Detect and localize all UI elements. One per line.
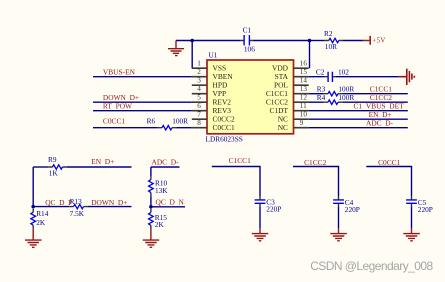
svg-text:R13: R13 xyxy=(70,197,83,206)
ground right sideways xyxy=(399,69,415,85)
wire C0CC1 branch xyxy=(366,167,411,197)
svg-text:QC D P: QC D P xyxy=(45,198,72,207)
svg-text:9: 9 xyxy=(300,119,304,127)
wire pin 9 xyxy=(309,127,408,129)
svg-text:CSDN @Legendary_008: CSDN @Legendary_008 xyxy=(310,259,433,273)
ground bottom A xyxy=(25,229,42,248)
ground bottom B xyxy=(143,229,160,247)
svg-text:NC: NC xyxy=(278,123,288,132)
power +5V xyxy=(363,36,386,45)
svg-text:R2: R2 xyxy=(324,29,333,38)
wire pin segs C4 xyxy=(338,197,340,207)
capacitor C4 xyxy=(333,198,360,214)
svg-text:QC D N: QC D N xyxy=(156,198,185,207)
wire RT POW to pin 6 xyxy=(93,110,192,112)
svg-text:4: 4 xyxy=(197,85,201,93)
svg-text:220P: 220P xyxy=(345,205,360,214)
svg-text:R4: R4 xyxy=(317,93,326,102)
ground top-left xyxy=(168,41,184,56)
svg-text:16: 16 xyxy=(300,60,308,68)
wire VBUS-EN to pin 2 xyxy=(93,76,192,78)
wire QC D N stub xyxy=(151,206,185,208)
svg-text:2K: 2K xyxy=(155,220,165,229)
svg-text:8: 8 xyxy=(197,119,201,127)
svg-text:1K: 1K xyxy=(49,168,59,177)
svg-text:EN D+: EN D+ xyxy=(91,157,114,166)
wire C0CC1 to R6 xyxy=(93,127,158,129)
ground bottom D xyxy=(330,229,347,241)
svg-text:C1: C1 xyxy=(243,26,252,35)
wire DOWN D+ to pin 5 xyxy=(93,101,192,103)
wire riser to pin 1 xyxy=(191,41,193,69)
pin numbers right xyxy=(300,60,308,128)
junction QC D N xyxy=(149,205,153,209)
svg-text:100R: 100R xyxy=(338,93,354,102)
wire R6 to pin 8 xyxy=(176,127,192,129)
ground bottom E xyxy=(403,229,420,241)
svg-text:C2: C2 xyxy=(316,67,325,76)
wire ADC column vertical upper xyxy=(150,167,152,176)
wire pin 10 xyxy=(309,118,408,120)
svg-text:7.5K: 7.5K xyxy=(70,209,85,218)
resistor R14 xyxy=(31,209,49,229)
pin stubs U1 left xyxy=(192,68,207,128)
wire riser to pin 16 xyxy=(309,41,311,69)
wire C3 to ground xyxy=(259,207,261,229)
svg-text:220P: 220P xyxy=(418,205,433,214)
junction QC D P xyxy=(31,205,35,209)
junction node at pin1 riser xyxy=(190,39,194,43)
capacitor C3 xyxy=(255,197,282,213)
capacitor C2 xyxy=(316,67,349,82)
svg-text:6: 6 xyxy=(197,102,201,110)
svg-text:13K: 13K xyxy=(155,186,168,195)
wire pin segs C2 xyxy=(325,76,336,78)
svg-text:DOWN D+: DOWN D+ xyxy=(91,198,127,207)
svg-text:10: 10 xyxy=(300,111,308,119)
svg-text:+5V: +5V xyxy=(372,37,386,44)
svg-text:11: 11 xyxy=(300,102,307,110)
pin stubs U1 right xyxy=(294,68,309,128)
svg-text:ADC D-: ADC D- xyxy=(366,118,394,127)
svg-text:R6: R6 xyxy=(147,117,156,126)
pin names right xyxy=(266,64,289,133)
svg-text:12: 12 xyxy=(300,94,308,102)
resistor R13 xyxy=(33,197,87,218)
wire left column vertical xyxy=(32,167,34,207)
svg-text:100R: 100R xyxy=(172,117,188,126)
ground bottom C xyxy=(252,229,268,241)
svg-text:7: 7 xyxy=(197,111,201,119)
svg-text:2: 2 xyxy=(197,68,201,76)
wire C1CC2 branch xyxy=(293,167,339,197)
resistor R6 xyxy=(147,117,189,130)
pin names left xyxy=(213,64,235,133)
resistor R3 xyxy=(309,84,355,96)
wire C1CC1 branch xyxy=(212,167,260,197)
svg-text:2K: 2K xyxy=(36,218,46,227)
svg-text:ADC D-: ADC D- xyxy=(152,158,180,167)
svg-text:102: 102 xyxy=(338,67,349,76)
wire pin segs C1 xyxy=(241,40,253,42)
svg-text:1: 1 xyxy=(197,60,201,68)
svg-text:C1CC2: C1CC2 xyxy=(304,158,326,167)
svg-text:LDR6023SS: LDR6023SS xyxy=(206,135,243,144)
svg-text:VBUS-EN: VBUS-EN xyxy=(103,67,136,76)
svg-text:R9: R9 xyxy=(48,155,57,164)
wire pin segs C3 xyxy=(259,197,261,207)
wire pin segs C5 xyxy=(411,197,413,207)
wire R13 to DOWN D+ xyxy=(88,206,132,208)
svg-text:C0CC1: C0CC1 xyxy=(213,123,235,132)
svg-text:13: 13 xyxy=(300,85,308,93)
svg-text:220P: 220P xyxy=(266,204,281,213)
resistor R9 xyxy=(33,155,66,177)
wire C4 to ground xyxy=(338,207,340,229)
svg-text:RT POW: RT POW xyxy=(103,101,132,110)
wire C5 to ground xyxy=(411,207,413,229)
svg-text:C0CC1: C0CC1 xyxy=(103,117,125,126)
pin numbers left xyxy=(197,60,201,128)
capacitor C1 xyxy=(243,26,256,54)
IC U1 body LDR6023SS xyxy=(206,51,294,144)
resistor R15 xyxy=(149,209,168,229)
wire R3 to C1CC1 xyxy=(342,93,408,95)
wire R4 to C1CC2 xyxy=(342,101,408,103)
svg-text:3: 3 xyxy=(197,77,201,85)
svg-text:10R: 10R xyxy=(325,42,337,51)
junction node at pin16 riser xyxy=(308,39,312,43)
resistor R10 xyxy=(149,176,169,196)
wire top horizontal xyxy=(176,40,310,42)
svg-text:14: 14 xyxy=(300,77,308,85)
wire pin 15 to C2 xyxy=(309,76,325,78)
capacitor C5 xyxy=(406,198,433,214)
svg-text:R14: R14 xyxy=(36,209,49,218)
wire ADC D- stub xyxy=(151,166,180,168)
svg-text:5: 5 xyxy=(197,94,201,102)
wire R10 to junction xyxy=(150,196,152,207)
svg-text:15: 15 xyxy=(300,68,308,76)
resistor R4 xyxy=(309,93,355,105)
wire R9 to EN D+ xyxy=(67,166,132,168)
svg-text:C1CC1: C1CC1 xyxy=(229,156,251,165)
wire C2 to ground xyxy=(336,76,399,78)
svg-text:C0CC1: C0CC1 xyxy=(378,158,400,167)
svg-text:U1: U1 xyxy=(209,51,218,60)
wire pin 11 xyxy=(309,110,408,112)
resistor R2 xyxy=(310,29,363,51)
svg-text:106: 106 xyxy=(244,44,255,53)
